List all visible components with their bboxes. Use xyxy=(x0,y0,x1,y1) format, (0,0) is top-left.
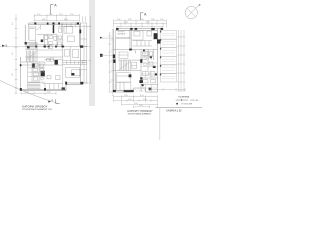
legend item 1: centerline symbol xyxy=(176,99,188,102)
svg-text:1.80: 1.80 xyxy=(151,19,155,21)
svg-text:1.90: 1.90 xyxy=(117,19,121,21)
section marker B flag xyxy=(2,45,5,47)
door arc hall (right plan) xyxy=(132,50,136,54)
svg-text:ΣΤΥΛΟΣ ΔΕΗ: ΣΤΥΛΟΣ ΔΕΗ xyxy=(181,103,193,106)
svg-text:3.40: 3.40 xyxy=(124,22,128,24)
section marker B line (left plan) xyxy=(0,46,25,48)
svg-text:4.60: 4.60 xyxy=(64,19,68,21)
svg-text:5.20: 5.20 xyxy=(134,103,138,105)
svg-text:ΥΠΟΛΟΓΙΣΜΟΣ ΔΟΜΗΣΗΣ: ΥΠΟΛΟΓΙΣΜΟΣ ΔΟΜΗΣΗΣ xyxy=(128,112,152,115)
svg-text:ΚΛΙΜΑΚΑ 1:50: ΚΛΙΜΑΚΑ 1:50 xyxy=(166,110,182,113)
interior walls upper (left plan) xyxy=(21,23,88,65)
bottom dimension lines (right plan) xyxy=(114,95,158,108)
top dimension lines (right plan) xyxy=(114,19,167,27)
svg-text:2.10: 2.10 xyxy=(49,14,53,16)
right dimension verticals (right plan) xyxy=(177,30,185,91)
svg-text:2.10: 2.10 xyxy=(160,19,164,21)
outer walls (left plan) xyxy=(21,23,88,91)
bathroom cluster mid (left plan) xyxy=(37,36,63,50)
svg-text:3.4: 3.4 xyxy=(12,53,14,56)
svg-text:ΥΠΟΛΟΓΙΣΜΟΣ ΔΟΜΗΣΗΣ 1:50: ΥΠΟΛΟΓΙΣΜΟΣ ΔΟΜΗΣΗΣ 1:50 xyxy=(22,108,52,111)
stair lower hatch (left plan) xyxy=(28,83,41,89)
kitchen counter band (left plan) xyxy=(58,23,81,32)
bedroom top-middle (right plan) xyxy=(132,30,152,46)
section marker A bottom (left plan) xyxy=(48,101,50,103)
dining room lower-right (left plan) xyxy=(42,47,87,91)
svg-text:ΥΠΟΜΝΗΜΑ: ΥΠΟΜΝΗΜΑ xyxy=(178,96,190,99)
svg-text:1.45: 1.45 xyxy=(143,99,147,101)
balcony east rails (left plan) xyxy=(81,23,91,83)
bottom-right dimension line (right plan) xyxy=(150,88,185,91)
door arc top (left plan) xyxy=(36,25,41,30)
wc cluster dark chunks (right plan) xyxy=(142,50,157,87)
svg-text:2.70: 2.70 xyxy=(37,14,41,16)
faint fold line bottom right xyxy=(159,108,161,140)
legend item 2: dot symbol xyxy=(176,103,178,105)
scan fold gray band xyxy=(89,0,95,106)
small dimension line with ticks (right plan bottom) xyxy=(134,106,150,108)
section marker filled square left (right plan) xyxy=(100,54,103,57)
top-left balcony (right plan) xyxy=(116,30,131,38)
svg-text:2.8: 2.8 xyxy=(12,74,14,77)
balcony louver lines xyxy=(162,33,175,79)
wc cluster grid lines (right plan) xyxy=(141,50,158,93)
thick wall chunks (right plan) xyxy=(113,28,163,92)
legend underline rule xyxy=(155,107,202,109)
svg-text:2.9: 2.9 xyxy=(12,23,14,26)
hatched porch bottom (right plan) xyxy=(135,88,146,91)
svg-text:3.20: 3.20 xyxy=(25,92,29,94)
section marker A top (left plan) xyxy=(51,5,54,15)
stair direction blob xyxy=(27,46,29,48)
bottom dimension line (left plan) xyxy=(21,92,56,95)
svg-text:2.40: 2.40 xyxy=(139,105,143,107)
kitchen rooms lower-left (right plan) xyxy=(117,73,143,91)
wc fixtures cluster (right plan) xyxy=(143,52,156,83)
svg-text:2.90: 2.90 xyxy=(124,95,128,97)
balcony label speck xyxy=(118,33,126,36)
section marker B left (right plan) xyxy=(100,37,103,39)
section marker A top (right plan) xyxy=(140,13,143,20)
svg-text:ΚΑΤΟΨΗ ΥΠΟΓΕΙΟΥ: ΚΑΤΟΨΗ ΥΠΟΓΕΙΟΥ xyxy=(128,110,154,113)
svg-text:ΚΑΤΟΨΗ ΟΡΟΦΟΥ: ΚΑΤΟΨΗ ΟΡΟΦΟΥ xyxy=(22,104,47,108)
thick wall chunks (left plan) xyxy=(20,22,84,90)
svg-text:2.35: 2.35 xyxy=(128,19,132,21)
stair ramp hatch (left plan) xyxy=(25,44,36,50)
background sheet xyxy=(0,0,202,140)
interior walls (right plan) xyxy=(114,29,158,92)
svg-text:4.80: 4.80 xyxy=(42,19,46,21)
svg-text:3.15: 3.15 xyxy=(146,22,150,24)
svg-text:2.60: 2.60 xyxy=(140,19,144,21)
left dimension lines (right plan) xyxy=(108,29,113,96)
stair treads vertical (left plan) xyxy=(26,51,37,62)
svg-text:ΒΕΡΑΝΤΑ: ΒΕΡΑΝΤΑ xyxy=(118,33,126,36)
svg-text:2.60: 2.60 xyxy=(47,92,51,94)
stair hatch (right plan) xyxy=(119,61,131,71)
dressing room (right plan) xyxy=(119,52,137,69)
right-side dimension verticals (left plan) xyxy=(82,16,91,84)
svg-text:ΟΡΙΟ ΟΙΚ.: ΟΡΙΟ ΟΙΚ. xyxy=(190,100,199,102)
svg-text:3.10: 3.10 xyxy=(140,95,144,97)
site boundary arc xyxy=(0,81,58,104)
svg-text:1.45: 1.45 xyxy=(128,99,132,101)
left dimension lines (left plan) xyxy=(15,15,18,94)
top dimension lines (left plan) xyxy=(34,14,79,22)
hall fixtures cluster lower-left (left plan) xyxy=(28,62,45,89)
balconies stack right (right plan) xyxy=(161,31,177,83)
svg-text:2.95: 2.95 xyxy=(70,14,74,16)
svg-text:2.05: 2.05 xyxy=(59,14,63,16)
balcony left edge ticks xyxy=(160,31,161,76)
north symbol circle xyxy=(185,4,200,19)
bed rectangle bedroom (left plan) xyxy=(64,26,75,41)
top-left room (left plan) xyxy=(29,26,63,60)
outer walls (right plan) xyxy=(114,29,164,92)
